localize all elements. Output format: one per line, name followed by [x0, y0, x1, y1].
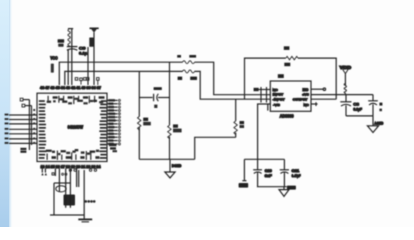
R10 ref label	[284, 46, 290, 50]
U2 pin name OUTPUT	[293, 97, 308, 101]
capacitor C9b	[368, 95, 378, 116]
U2 pin name INPUT	[273, 93, 284, 97]
C9b ref label	[379, 103, 382, 106]
R10 value label	[284, 63, 290, 66]
capacitor C6 link wire	[139, 97, 169, 99]
svg-text:48 47 46 45 44 43 42 41 40 39: 48 47 46 45 44 43 42 41 40 39 38 37	[40, 86, 101, 90]
U2 pin1 NC stub	[254, 88, 271, 91]
net label VB	[89, 38, 93, 47]
op-amp U2	[270, 81, 311, 111]
U1 lower-right pin labels	[109, 144, 117, 153]
svg-text:C11: C11	[292, 169, 300, 173]
wire feedback from -input up over R10	[245, 58, 286, 99]
L2 ref label	[178, 77, 183, 80]
IC U1 body	[37, 93, 107, 161]
wire stub to pin square	[87, 47, 89, 85]
resistor R9	[234, 99, 237, 137]
power VDD symbol	[343, 70, 348, 85]
C6 ref label	[154, 87, 162, 90]
L2 value label	[190, 77, 197, 80]
U2 pin NC right stub with open circle	[311, 88, 326, 90]
svg-text:INPUT: INPUT	[273, 93, 284, 97]
PGND label	[287, 186, 296, 190]
svg-text:AD8009: AD8009	[280, 114, 294, 119]
U1 left lead pins	[9, 115, 37, 143]
inductor L2	[183, 70, 195, 73]
wire net A (U1 pin to L1)	[59, 62, 182, 85]
capacitor C11	[280, 159, 289, 186]
net label vertical left of bus	[51, 64, 54, 73]
L1 value label	[189, 55, 196, 58]
wire left bus 1	[28, 100, 30, 150]
crystal block right dots	[85, 200, 96, 203]
capacitor C8	[340, 95, 351, 116]
svg-text:C10: C10	[265, 169, 272, 173]
U1 left lead end labels	[5, 114, 9, 144]
crystal oscillator block below U1	[50, 170, 84, 219]
U1 left unconnected square pin 2	[22, 104, 32, 107]
bottom wire of C10 C11	[257, 186, 287, 188]
resistor R8	[168, 62, 171, 159]
C8 ref label	[353, 103, 359, 107]
svg-text:AGND: AGND	[374, 121, 383, 126]
capacitor C6	[154, 94, 159, 101]
terminal marks row below U1	[41, 173, 47, 176]
resistor R7	[138, 71, 141, 159]
power tap VCC1	[242, 159, 246, 180]
wire net A from L1 down to U2 +input row	[195, 62, 271, 94]
wire feedback to output	[298, 58, 336, 99]
U1 lower-left small labels	[20, 148, 26, 153]
R9 value label	[240, 121, 245, 128]
wire from FB1 to C9 node	[71, 29, 73, 85]
U2 pin name NC (bottom right)	[304, 103, 310, 107]
crystal block stubs from U1 bottom	[42, 169, 76, 208]
net label VCC	[50, 56, 57, 61]
U1 right lead pins with labels and n.c. circles	[107, 99, 120, 145]
capacitor C9	[67, 46, 78, 50]
C9 value label 0.1uF	[79, 45, 88, 55]
wire left bus 2	[31, 106, 33, 145]
U2 V0 stub	[267, 104, 269, 111]
svg-text:13 14 15 16 17 18 19 20 21 22: 13 14 15 16 17 18 19 20 21 22 23 24	[41, 165, 102, 169]
ground bar below crystal block	[78, 219, 92, 221]
C11 ref label	[292, 169, 300, 173]
C9b value label	[379, 109, 382, 112]
ferrite bead FB1	[68, 29, 73, 47]
U2 part number AD8009	[280, 114, 294, 119]
U1 top pin numbers row	[40, 86, 101, 90]
C10 ref label	[265, 169, 272, 173]
wire +VS rail	[311, 94, 373, 96]
U2 pin name NC (top left)	[273, 88, 279, 92]
U1 bottom pin numbers row	[41, 164, 101, 168]
ground DGND	[165, 159, 175, 178]
ferrite bead L3 on VDD line	[344, 84, 346, 95]
bottom wire of supply caps	[346, 115, 373, 117]
C11 value label	[292, 174, 302, 178]
U1 inside top pin-name row	[47, 96, 105, 105]
wire staircase R9 return	[195, 137, 236, 159]
DGND label	[172, 163, 182, 168]
svg-text:NC: NC	[273, 88, 279, 92]
power rail VB symbol	[90, 28, 99, 85]
svg-text:OUTPUT: OUTPUT	[293, 97, 308, 101]
svg-text:3nF: 3nF	[265, 174, 273, 178]
svg-text:-INPUT: -INPUT	[273, 97, 285, 101]
U2 pin name -VS	[273, 103, 280, 107]
U1 inside bottom pin-name row	[46, 149, 100, 160]
U1 left outside pin numbers	[33, 109, 35, 144]
U2 right NC stub	[311, 102, 318, 106]
svg-text:VCC: VCC	[50, 56, 57, 61]
svg-text:0.1µF: 0.1µF	[353, 108, 362, 112]
U1 inside right pin-name column	[99, 100, 106, 159]
inductor L1	[183, 61, 195, 64]
wire net C (U1 pin to L2)	[65, 71, 183, 85]
U2 pin name -INPUT	[273, 97, 285, 101]
U1 part number 34118DW	[68, 124, 84, 129]
AGND label	[374, 121, 383, 126]
unconnected pin squares above U1	[75, 78, 99, 85]
svg-text:-VS: -VS	[273, 103, 280, 107]
wire C9 to bus	[67, 49, 69, 85]
wire net C from L2 down to U2 -input row	[195, 71, 271, 99]
L1 ref label	[177, 55, 181, 58]
svg-text:NC: NC	[304, 103, 310, 107]
R7 value label	[143, 118, 151, 126]
terminal circles below U1	[52, 169, 97, 175]
R8 value label	[173, 124, 182, 132]
crystal body	[64, 195, 76, 206]
VDD label	[340, 65, 352, 70]
crystal Y1 ellipse	[56, 186, 66, 192]
svg-text:+VS: +VS	[302, 93, 309, 97]
capacitor C10	[253, 159, 262, 186]
C6 value label	[154, 105, 157, 108]
svg-text:34119DW: 34119DW	[68, 124, 84, 129]
FB1 label	[58, 39, 65, 47]
VCC1 label	[239, 183, 249, 188]
wire C10/C11 top rail	[244, 158, 284, 160]
U2 -VS pin wire down to C10 net	[258, 104, 271, 159]
svg-text:C8: C8	[353, 103, 359, 107]
svg-text:0.1µ: 0.1µ	[79, 50, 88, 55]
U2 ref label	[278, 74, 284, 78]
U1 inside left pin-name column	[39, 100, 47, 159]
svg-text:VDD: VDD	[340, 65, 352, 70]
svg-text:NC: NC	[303, 88, 309, 92]
ground PGND	[279, 187, 289, 197]
bottom wire joining R7 R8 to DGND	[139, 158, 194, 160]
resistor R10	[286, 56, 298, 59]
U1 left unconnected square pin 1	[20, 98, 29, 101]
svg-text:0.47µF: 0.47µF	[292, 174, 302, 178]
connector bars at U2 input	[261, 87, 267, 103]
C8 value label	[353, 108, 362, 112]
output wire	[311, 98, 336, 100]
U2 pin name +VS	[302, 93, 309, 97]
U2 pin name NC (top right)	[303, 88, 309, 92]
svg-text:DGND: DGND	[172, 163, 182, 168]
C10 value label	[265, 174, 273, 178]
ground AGND	[367, 116, 378, 133]
